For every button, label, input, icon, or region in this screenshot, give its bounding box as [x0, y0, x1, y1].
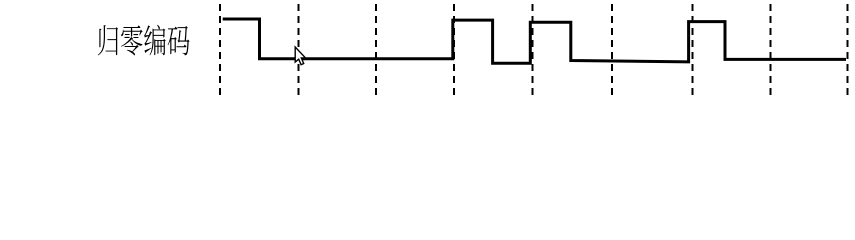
text label 归零编码 (RZ encoding)	[98, 25, 190, 56]
bit-cell boundary dashed line 2	[298, 4, 300, 95]
RZ waveform polyline	[223, 19, 846, 63]
bit-cell boundary dashed line 3	[375, 4, 377, 95]
bit-cell boundary dashed line 8	[770, 4, 772, 95]
mouse cursor	[295, 47, 305, 65]
bit-cell boundary dashed line 5	[532, 4, 534, 95]
bit-cell boundary dashed line 6	[611, 4, 613, 95]
bit-cell boundary dashed line 7	[692, 4, 694, 95]
bit-cell boundary dashed line 9	[847, 4, 849, 95]
bit-cell boundary dashed line 4	[453, 4, 455, 95]
bit-cell boundary dashed line 1	[219, 4, 221, 95]
